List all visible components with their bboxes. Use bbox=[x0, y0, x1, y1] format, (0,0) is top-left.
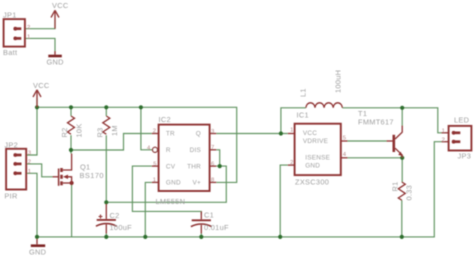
svg-text:Batt: Batt bbox=[3, 48, 17, 57]
svg-text:VCC: VCC bbox=[33, 81, 50, 90]
svg-text:1M: 1M bbox=[110, 125, 119, 136]
svg-text:2: 2 bbox=[27, 25, 30, 31]
svg-text:100uF: 100uF bbox=[110, 223, 133, 232]
svg-text:GND: GND bbox=[29, 248, 46, 257]
svg-text:IC1: IC1 bbox=[297, 111, 309, 120]
svg-text:2: 2 bbox=[290, 160, 293, 166]
svg-text:TR: TR bbox=[166, 130, 175, 137]
svg-text:IC2: IC2 bbox=[159, 115, 171, 124]
svg-text:2: 2 bbox=[153, 128, 156, 134]
svg-text:Q: Q bbox=[196, 130, 201, 137]
svg-text:7: 7 bbox=[211, 145, 214, 151]
svg-text:R: R bbox=[166, 147, 171, 154]
svg-text:R3: R3 bbox=[96, 127, 105, 137]
svg-text:FMMT617: FMMT617 bbox=[358, 118, 394, 127]
svg-text:R1: R1 bbox=[391, 181, 400, 191]
svg-text:0.33: 0.33 bbox=[405, 185, 414, 201]
svg-text:GND: GND bbox=[47, 58, 64, 67]
svg-text:ZXSC300: ZXSC300 bbox=[295, 178, 329, 187]
svg-text:JP2: JP2 bbox=[4, 141, 18, 150]
svg-text:2: 2 bbox=[442, 137, 445, 143]
svg-text:L1: L1 bbox=[299, 88, 308, 97]
svg-text:GND: GND bbox=[166, 180, 181, 187]
svg-text:C1: C1 bbox=[204, 211, 214, 220]
svg-text:C2: C2 bbox=[110, 211, 120, 220]
svg-text:JP1: JP1 bbox=[3, 11, 17, 20]
svg-text:1: 1 bbox=[27, 34, 30, 40]
svg-text:0.01uF: 0.01uF bbox=[204, 223, 229, 232]
svg-text:LM555N: LM555N bbox=[156, 197, 186, 206]
svg-text:1: 1 bbox=[442, 128, 445, 134]
svg-text:VCC: VCC bbox=[52, 1, 69, 10]
svg-text:1: 1 bbox=[153, 178, 156, 184]
svg-text:JP3: JP3 bbox=[458, 152, 472, 161]
svg-text:GND: GND bbox=[305, 163, 320, 170]
svg-text:1: 1 bbox=[28, 169, 31, 175]
svg-text:100uH: 100uH bbox=[334, 70, 343, 93]
svg-text:1: 1 bbox=[290, 128, 293, 134]
svg-text:BS170: BS170 bbox=[80, 171, 104, 180]
svg-text:PIR: PIR bbox=[4, 192, 17, 201]
svg-text:CV: CV bbox=[166, 163, 176, 170]
svg-text:2: 2 bbox=[28, 159, 31, 165]
svg-text:VDRIVE: VDRIVE bbox=[303, 138, 328, 145]
svg-text:DIS: DIS bbox=[190, 147, 201, 154]
svg-text:R2: R2 bbox=[60, 127, 69, 137]
svg-text:V+: V+ bbox=[193, 180, 202, 187]
svg-text:VCC: VCC bbox=[303, 130, 317, 137]
svg-text:LED: LED bbox=[454, 116, 469, 125]
svg-text:ISENSE: ISENSE bbox=[305, 155, 330, 162]
svg-text:THR: THR bbox=[187, 163, 201, 170]
svg-text:10K: 10K bbox=[75, 123, 84, 137]
